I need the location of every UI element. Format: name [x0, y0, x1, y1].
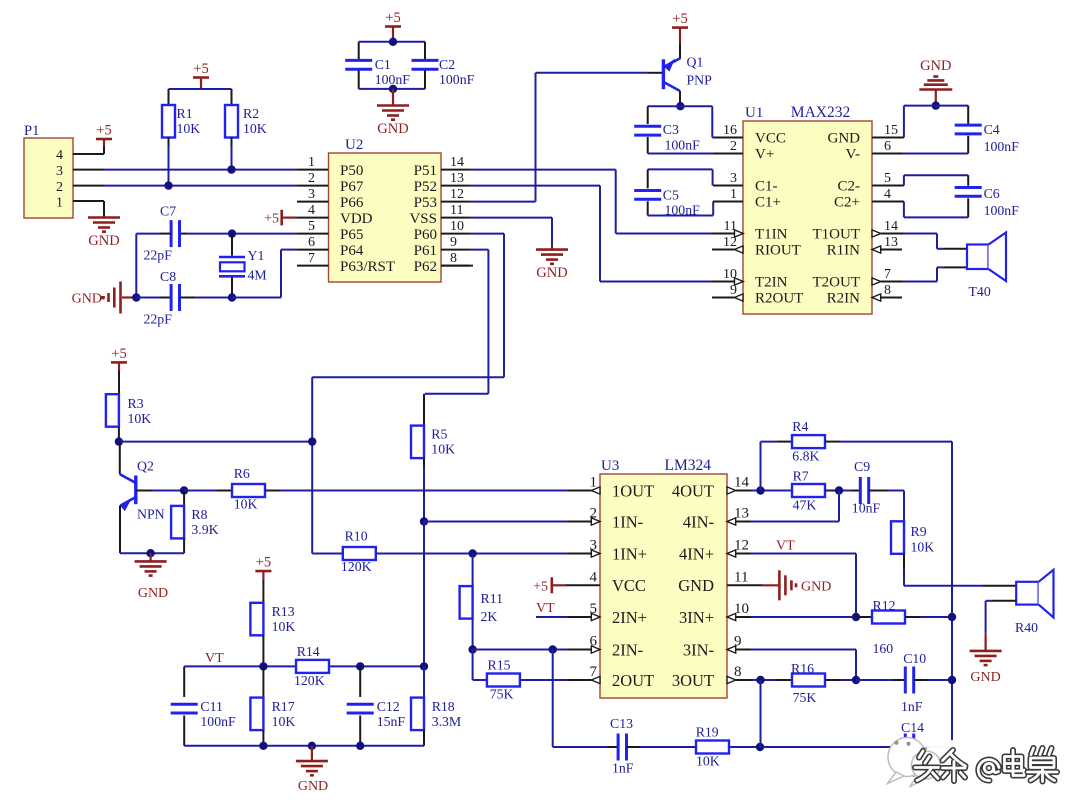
wire C5 top rail: [648, 168, 713, 170]
wire pin13 branch: [838, 491, 840, 522]
junction rail P60: [308, 437, 316, 445]
watermark text dian: [1005, 750, 1025, 776]
crystal Y1: [231, 234, 233, 256]
svg-text:2: 2: [56, 180, 63, 195]
junction crystal bottom: [228, 293, 236, 301]
resistor R10: [343, 547, 376, 560]
resistor R12: [856, 616, 872, 618]
svg-text:100nF: 100nF: [984, 203, 1020, 218]
wire pin12 to R12 junction: [751, 553, 856, 555]
U1 pin9 stub arrow: [712, 297, 734, 299]
svg-text:P67: P67: [340, 179, 364, 195]
junction R12 left: [852, 613, 860, 621]
svg-text:75K: 75K: [793, 690, 817, 705]
capacitor C5: [647, 169, 649, 188]
svg-text:160: 160: [873, 641, 894, 656]
U1 pin12 stub arrow: [712, 249, 734, 251]
svg-text:R3: R3: [128, 396, 144, 411]
svg-text:3: 3: [56, 164, 63, 179]
junction C13 branch: [549, 645, 557, 653]
svg-text:10K: 10K: [696, 754, 720, 769]
svg-text:100nF: 100nF: [665, 138, 701, 153]
svg-text:1OUT: 1OUT: [612, 481, 654, 500]
svg-text:P63/RST: P63/RST: [340, 259, 395, 275]
svg-text:4: 4: [590, 569, 598, 585]
svg-text:VCC: VCC: [755, 131, 786, 147]
svg-text:C3: C3: [663, 122, 679, 137]
wire net P50 row: [104, 169, 297, 171]
U3 pin1 arrow: [568, 490, 591, 492]
wire R2 lead down: [231, 138, 233, 147]
svg-text:R16: R16: [791, 661, 814, 676]
svg-text:C13: C13: [610, 716, 633, 731]
capacitor C1: [358, 42, 360, 59]
svg-text:7: 7: [884, 267, 891, 282]
svg-text:GND: GND: [88, 233, 119, 249]
wire R16 to C10: [825, 679, 840, 681]
svg-text:5: 5: [884, 171, 891, 186]
wire C1 C2 top rail: [359, 41, 425, 43]
svg-text:V+: V+: [755, 147, 774, 163]
svg-text:3.3M: 3.3M: [432, 714, 462, 729]
junction R7 pin13: [835, 486, 843, 494]
watermark band: [895, 740, 1080, 763]
svg-text:6.8K: 6.8K: [792, 449, 819, 464]
wire to ground C1C2: [392, 89, 394, 106]
U1 pin11 stub arrow: [712, 233, 735, 235]
wire P61 down: [469, 249, 488, 251]
svg-text:R19: R19: [696, 725, 719, 740]
junction C12 VT: [356, 662, 364, 670]
wire C7 down to C8 row: [135, 234, 137, 298]
svg-text:P53: P53: [414, 195, 437, 211]
svg-text:1: 1: [730, 187, 737, 202]
wire C1 C2 bottom rail: [359, 88, 425, 90]
svg-text:VCC: VCC: [612, 576, 646, 595]
power +5 at P1: [96, 138, 112, 141]
wire T1OUT to T40: [903, 233, 937, 235]
wire R12 to column: [905, 616, 920, 618]
wire R15 to 2OUT: [520, 679, 568, 681]
wire right column down: [951, 442, 953, 747]
resistor R6: [232, 484, 265, 497]
junction R1-P67: [164, 181, 172, 189]
wire pin9 branch: [751, 649, 856, 651]
wire P51 to U1 T1IN: [469, 169, 616, 171]
svg-text:4OUT: 4OUT: [672, 481, 714, 500]
power +5 above R13: [255, 570, 271, 573]
svg-text:100nF: 100nF: [439, 72, 475, 87]
wire T2OUT to T40: [903, 281, 937, 283]
watermark text chao: [1028, 748, 1058, 782]
U2 right pin 13 stub: [441, 185, 469, 187]
svg-text:P62: P62: [414, 259, 437, 275]
svg-text:R1: R1: [177, 106, 193, 121]
wire P1 pin3 row: [73, 169, 104, 171]
wire C5 bottom to U1 C1+: [648, 215, 714, 217]
svg-text:GND: GND: [801, 580, 831, 595]
svg-text:R40: R40: [1015, 620, 1038, 635]
U1 pin7 stub arrow: [872, 278, 881, 285]
svg-text:P64: P64: [340, 243, 364, 259]
junction bottom row: [756, 743, 764, 751]
svg-text:+5: +5: [111, 346, 126, 362]
svg-text:U2: U2: [345, 137, 363, 153]
svg-text:T1IN: T1IN: [755, 227, 788, 243]
junction emitter gnd: [146, 549, 154, 557]
U3 pin10 arrow: [727, 613, 736, 620]
power +5 above R1 R2: [193, 76, 209, 79]
wire R6 to U3 1OUT: [265, 490, 280, 492]
speaker T40: [967, 245, 989, 270]
junction top C1C2: [389, 38, 397, 46]
wire pin8 to R16: [751, 679, 777, 681]
wire R11 to R15: [472, 650, 474, 681]
svg-text:R6: R6: [234, 466, 250, 481]
svg-text:GND: GND: [920, 58, 951, 74]
ground above C4: [919, 88, 952, 91]
wire R9 to R40: [904, 585, 983, 587]
svg-text:C11: C11: [200, 699, 223, 714]
svg-text:VT: VT: [536, 601, 555, 616]
svg-text:Q1: Q1: [687, 55, 704, 70]
svg-text:8: 8: [450, 251, 457, 266]
svg-text:Y1: Y1: [248, 248, 265, 263]
svg-text:3OUT: 3OUT: [672, 671, 714, 690]
svg-text:R18: R18: [432, 699, 455, 714]
svg-text:T1OUT: T1OUT: [813, 227, 861, 243]
junction R4 branch: [756, 486, 764, 494]
resistor R11: [472, 554, 474, 587]
U2 pin7 stub: [297, 265, 329, 267]
resistor R19: [696, 741, 729, 754]
ground below RC network: [311, 746, 313, 761]
wire R19 to junction: [729, 746, 760, 748]
watermark text at-sign: [978, 760, 999, 781]
junction C12 rail: [356, 742, 364, 750]
wire C4 top rail: [904, 105, 968, 107]
svg-text:NPN: NPN: [137, 507, 165, 522]
svg-text:RIOUT: RIOUT: [755, 243, 801, 259]
wire R7 to C9: [825, 490, 839, 492]
svg-text:15nF: 15nF: [377, 714, 406, 729]
junction C10 column: [948, 676, 956, 684]
svg-text:16: 16: [723, 123, 737, 138]
wire P1 pin2 row: [73, 185, 104, 187]
svg-text:VT: VT: [205, 651, 224, 666]
svg-text:GND: GND: [298, 779, 328, 794]
svg-text:7: 7: [308, 251, 315, 266]
capacitor C2: [424, 42, 426, 59]
junction R3 rail: [115, 437, 123, 445]
ic U1 MAX232: [743, 121, 872, 314]
svg-text:GND: GND: [678, 576, 714, 595]
svg-text:8: 8: [884, 283, 891, 298]
resistor R5: [423, 394, 425, 426]
wire P1 pin4 to +5: [73, 153, 104, 155]
svg-text:2IN+: 2IN+: [612, 608, 647, 627]
svg-text:4IN-: 4IN-: [683, 512, 714, 531]
svg-text:13: 13: [450, 171, 464, 186]
U3 pin7 arrow: [568, 679, 591, 681]
wire U2 P65 row to crystal: [232, 233, 297, 235]
svg-text:+5: +5: [96, 123, 111, 139]
junction Q1 collector: [676, 102, 684, 110]
svg-text:R12: R12: [873, 598, 896, 613]
U3 pin14 arrow: [727, 487, 736, 494]
svg-text:R2OUT: R2OUT: [755, 291, 803, 307]
wire P52 to U1 T2IN: [469, 185, 600, 187]
svg-text:+5: +5: [385, 10, 400, 26]
ground below Q2: [150, 553, 152, 561]
resistor R8: [183, 491, 185, 506]
ground below R40: [970, 650, 1002, 653]
svg-text:1nF: 1nF: [612, 761, 634, 776]
wire Q2 base row: [136, 490, 152, 492]
wire Q1 collector down: [679, 91, 681, 106]
svg-text:U1: U1: [745, 105, 763, 121]
svg-text:4: 4: [308, 203, 315, 218]
svg-text:P50: P50: [340, 163, 363, 179]
U1 pin13 stub arrow: [872, 246, 881, 253]
speaker R40: [1016, 582, 1038, 605]
resistor R17: [262, 666, 264, 697]
junction R16 right: [852, 676, 860, 684]
U3 pin13 arrow: [727, 518, 736, 525]
resistor R1: [162, 105, 175, 138]
wire pin8 down branch: [760, 680, 762, 747]
U3 pin2 arrow: [568, 521, 591, 523]
svg-text:R8: R8: [191, 507, 207, 522]
svg-text:GND: GND: [72, 292, 102, 307]
junction R12 column: [948, 613, 956, 621]
wire VT row: [184, 665, 424, 667]
resistor R4: [792, 435, 825, 448]
resistor R9: [891, 521, 904, 554]
svg-text:V-: V-: [846, 147, 860, 163]
svg-text:P52: P52: [414, 179, 437, 195]
ground at P1: [88, 216, 120, 219]
svg-text:C2: C2: [439, 57, 455, 72]
svg-text:11: 11: [734, 569, 748, 585]
capacitor C4: [967, 106, 969, 124]
svg-text:3.9K: 3.9K: [191, 522, 218, 537]
svg-text:C4: C4: [984, 122, 1000, 137]
wire emitter rail: [120, 552, 184, 554]
wire 1IN- row: [424, 521, 568, 523]
resistor R7: [792, 484, 825, 497]
wire R1 lead down: [168, 138, 170, 147]
svg-text:9: 9: [450, 235, 457, 250]
svg-text:+5: +5: [672, 11, 687, 27]
svg-text:10K: 10K: [431, 442, 455, 457]
capacitor C8: [136, 297, 160, 299]
capacitor C7: [187, 233, 232, 235]
wire R4 to right column: [825, 441, 840, 443]
U2 right pin 8 stub: [441, 265, 469, 267]
svg-text:R5: R5: [431, 427, 447, 442]
svg-text:75K: 75K: [490, 687, 514, 702]
capacitor C11: [183, 666, 185, 697]
junction R18 VT: [420, 662, 428, 670]
junction C8 left: [132, 293, 140, 301]
svg-text:C14: C14: [901, 720, 924, 735]
svg-text:VDD: VDD: [340, 211, 373, 227]
junction R5 row2: [420, 517, 428, 525]
junction C4 top: [932, 101, 940, 109]
svg-text:2IN-: 2IN-: [612, 640, 643, 659]
svg-text:U3: U3: [601, 458, 619, 474]
wire pin14 to R4 R7: [751, 490, 792, 492]
svg-text:11: 11: [450, 203, 463, 218]
ground at VSS: [536, 248, 568, 251]
svg-text:C9: C9: [854, 459, 870, 474]
svg-text:R9: R9: [911, 524, 927, 539]
U2 pin3 stub: [297, 201, 329, 203]
wire C6 bottom rail: [904, 216, 968, 218]
transistor Q1: [679, 43, 681, 59]
svg-text:+5: +5: [193, 61, 208, 77]
capacitor C10: [856, 679, 893, 681]
svg-text:10nF: 10nF: [852, 501, 881, 516]
wire R5 column down: [423, 522, 425, 667]
svg-text:100nF: 100nF: [984, 139, 1020, 154]
svg-text:+5: +5: [256, 555, 271, 571]
U2 pin8 stub: [441, 265, 473, 267]
wire P60 down: [469, 233, 504, 235]
resistor R14: [296, 660, 329, 673]
svg-text:C2-: C2-: [838, 179, 861, 195]
svg-text:P65: P65: [340, 227, 363, 243]
power +5 above Q1: [672, 26, 688, 29]
U2 right pin 11 stub: [441, 217, 469, 219]
svg-text:C1-: C1-: [755, 179, 778, 195]
svg-text:GND: GND: [828, 131, 861, 147]
svg-text:10K: 10K: [243, 121, 267, 136]
wire P61 to R5: [425, 393, 489, 395]
resistor R15: [487, 674, 520, 687]
svg-text:1IN-: 1IN-: [612, 512, 643, 531]
svg-text:C1: C1: [375, 57, 391, 72]
svg-text:R15: R15: [488, 658, 511, 673]
wire C3 bottom to U1 V+: [648, 153, 713, 155]
svg-text:R10: R10: [345, 529, 368, 544]
svg-text:T2IN: T2IN: [755, 275, 788, 291]
svg-text:120K: 120K: [341, 559, 372, 574]
watermark text tou: [915, 751, 939, 781]
resistor R13: [250, 603, 263, 636]
wire P53 to Q1 base: [469, 201, 536, 203]
svg-text:R1IN: R1IN: [827, 243, 861, 259]
svg-text:+5: +5: [264, 212, 279, 227]
svg-text:1nF: 1nF: [901, 699, 923, 714]
junction crystal top: [228, 229, 236, 237]
svg-text:4IN+: 4IN+: [679, 544, 714, 563]
svg-text:Q2: Q2: [137, 459, 154, 474]
ic U2: [329, 153, 442, 282]
svg-text:P60: P60: [414, 227, 437, 243]
wire 2IN- branch down: [552, 650, 554, 748]
capacitor C14: [904, 734, 907, 761]
svg-text:14: 14: [734, 475, 750, 491]
svg-text:GND: GND: [377, 121, 408, 137]
power +5 above C1: [385, 25, 401, 28]
svg-text:10: 10: [450, 219, 464, 234]
junction R11 bottom: [468, 645, 476, 653]
svg-text:T2OUT: T2OUT: [813, 275, 861, 291]
U2 right pin 12 stub: [441, 201, 469, 203]
svg-text:10K: 10K: [272, 619, 296, 634]
svg-text:R2: R2: [243, 106, 259, 121]
U2 right pin 10 stub: [441, 233, 469, 235]
svg-text:T40: T40: [969, 284, 991, 299]
svg-text:2: 2: [308, 171, 315, 186]
svg-text:GND: GND: [536, 265, 567, 281]
svg-text:GND: GND: [138, 586, 168, 601]
transistor Q2: [119, 442, 121, 475]
capacitor C3: [647, 106, 649, 124]
U3 pin12 arrow: [727, 550, 736, 557]
wire base to R6: [184, 490, 217, 492]
svg-text:R2IN: R2IN: [827, 291, 861, 307]
svg-text:4: 4: [884, 187, 891, 202]
svg-text:R13: R13: [272, 604, 295, 619]
svg-text:P66: P66: [340, 195, 364, 211]
svg-text:C10: C10: [903, 651, 926, 666]
junction bottom C1C2: [389, 85, 397, 93]
svg-text:PNP: PNP: [687, 73, 713, 88]
watermark text tiao: [943, 750, 966, 781]
svg-text:5: 5: [308, 219, 315, 234]
wire net P67 row: [104, 185, 297, 187]
svg-text:C6: C6: [984, 186, 1000, 201]
wire P60 net down-left: [312, 376, 504, 378]
svg-text:GND: GND: [970, 670, 1000, 685]
svg-text:C12: C12: [377, 699, 400, 714]
wire C6 top rail: [904, 174, 968, 176]
wire to R10: [312, 553, 343, 555]
svg-text:12: 12: [450, 187, 464, 202]
svg-text:14: 14: [450, 155, 464, 170]
svg-text:8: 8: [734, 664, 742, 680]
svg-text:P1: P1: [24, 123, 39, 139]
svg-text:2K: 2K: [481, 609, 498, 624]
svg-text:3: 3: [308, 187, 315, 202]
svg-text:VSS: VSS: [409, 211, 437, 227]
svg-text:10K: 10K: [177, 121, 201, 136]
power +5 above R3: [111, 361, 127, 364]
svg-text:10K: 10K: [272, 714, 296, 729]
ground at U3 pin11: [762, 584, 779, 586]
U3 pin9 arrow: [727, 646, 736, 653]
svg-text:VT: VT: [776, 539, 795, 554]
watermark logo bubbles: [888, 738, 941, 788]
svg-text:3IN+: 3IN+: [679, 608, 714, 627]
connector P1: [24, 138, 73, 218]
wire C4 bottom rail: [904, 153, 968, 155]
U3 pin3 arrow: [568, 553, 591, 555]
resistor R18: [423, 666, 425, 697]
U1 pin10 stub arrow: [712, 281, 735, 283]
wire crystal bottom to U2 P64: [232, 297, 281, 299]
resistor R16: [777, 679, 792, 681]
ground below C1 C2: [377, 104, 409, 107]
svg-text:R14: R14: [297, 644, 320, 659]
svg-text:10K: 10K: [911, 540, 935, 555]
U2 right pin 14 stub: [441, 169, 469, 171]
U1 pin8 stub arrow: [872, 294, 881, 301]
capacitor C6: [967, 175, 969, 186]
